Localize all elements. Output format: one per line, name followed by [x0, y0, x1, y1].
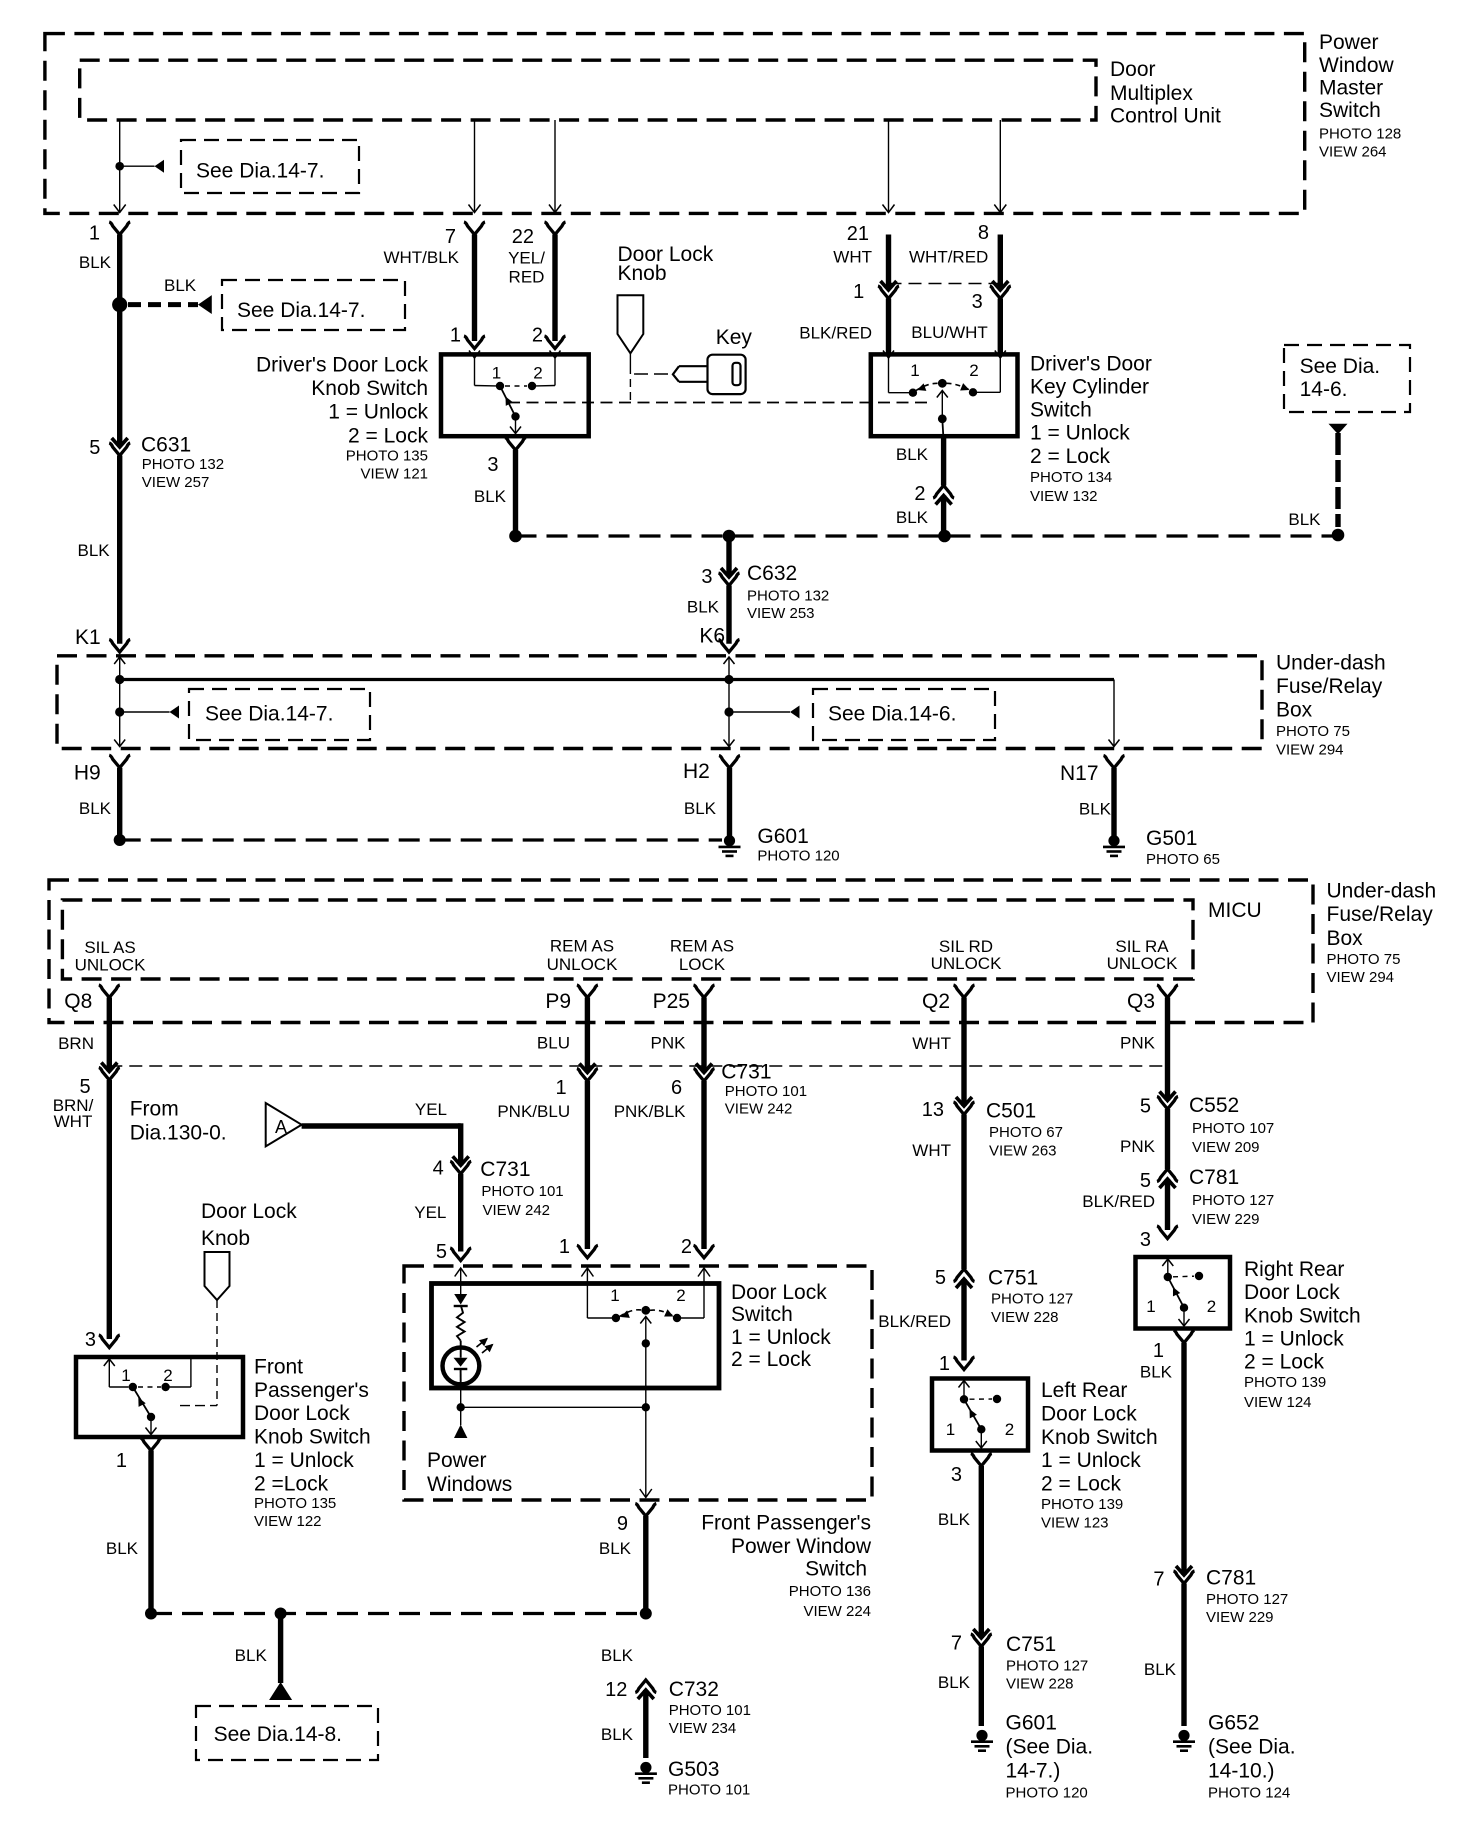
svg-text:5: 5 — [436, 1241, 447, 1263]
svg-text:Door Lock: Door Lock — [1244, 1281, 1340, 1304]
svg-text:3: 3 — [1140, 1229, 1151, 1251]
svg-text:VIEW 264: VIEW 264 — [1319, 143, 1387, 160]
svg-text:BLK: BLK — [235, 1646, 268, 1665]
svg-text:See Dia.: See Dia. — [1300, 355, 1381, 378]
svg-text:VIEW 228: VIEW 228 — [1006, 1676, 1074, 1693]
svg-text:VIEW 132: VIEW 132 — [1030, 488, 1098, 505]
svg-text:BLK: BLK — [79, 253, 112, 272]
svg-text:MICU: MICU — [1208, 899, 1262, 922]
svg-text:1: 1 — [939, 1353, 950, 1375]
svg-text:2 = Lock: 2 = Lock — [1041, 1473, 1121, 1496]
svg-text:Power Window: Power Window — [731, 1535, 872, 1558]
svg-text:Knob Switch: Knob Switch — [1041, 1426, 1158, 1449]
svg-text:PHOTO 120: PHOTO 120 — [1006, 1785, 1088, 1802]
svg-text:PHOTO 65: PHOTO 65 — [1146, 851, 1220, 868]
svg-text:BLK: BLK — [684, 799, 717, 818]
svg-text:PHOTO 136: PHOTO 136 — [789, 1583, 871, 1600]
svg-text:Fuse/Relay: Fuse/Relay — [1327, 903, 1434, 926]
svg-text:8: 8 — [978, 222, 989, 244]
svg-text:Key Cylinder: Key Cylinder — [1030, 376, 1149, 399]
svg-text:VIEW 122: VIEW 122 — [254, 1513, 322, 1530]
svg-text:H2: H2 — [683, 760, 710, 783]
svg-text:C781: C781 — [1189, 1166, 1239, 1189]
svg-text:2 = Lock: 2 = Lock — [731, 1348, 811, 1371]
svg-text:BLK: BLK — [1140, 1363, 1173, 1382]
svg-text:VIEW 294: VIEW 294 — [1327, 969, 1395, 986]
svg-text:Master: Master — [1319, 76, 1383, 99]
svg-text:VIEW 228: VIEW 228 — [991, 1309, 1059, 1326]
svg-text:C552: C552 — [1189, 1094, 1239, 1117]
svg-text:1: 1 — [1153, 1340, 1164, 1362]
svg-text:2 = Lock: 2 = Lock — [1244, 1350, 1324, 1373]
svg-text:REM AS: REM AS — [550, 937, 614, 956]
svg-text:C731: C731 — [480, 1158, 530, 1181]
svg-text:VIEW 121: VIEW 121 — [360, 466, 428, 483]
svg-text:5: 5 — [89, 437, 100, 459]
svg-text:YEL: YEL — [414, 1203, 446, 1222]
svg-text:PHOTO 139: PHOTO 139 — [1041, 1496, 1123, 1513]
svg-text:C781: C781 — [1206, 1567, 1256, 1590]
svg-text:PNK/BLU: PNK/BLU — [497, 1102, 570, 1121]
svg-text:PHOTO 120: PHOTO 120 — [757, 848, 839, 865]
svg-text:PHOTO 101: PHOTO 101 — [725, 1083, 807, 1100]
svg-text:C501: C501 — [986, 1100, 1036, 1123]
svg-text:P25: P25 — [653, 990, 690, 1013]
svg-text:BLK: BLK — [474, 487, 507, 506]
svg-text:13: 13 — [922, 1099, 944, 1121]
svg-text:22: 22 — [512, 226, 534, 248]
svg-text:BLK: BLK — [78, 541, 111, 560]
svg-text:1: 1 — [89, 223, 100, 245]
svg-text:Under-dash: Under-dash — [1327, 880, 1437, 903]
svg-text:G501: G501 — [1146, 827, 1197, 850]
svg-text:PHOTO 135: PHOTO 135 — [346, 448, 428, 465]
svg-text:LOCK: LOCK — [679, 955, 726, 974]
svg-text:VIEW 242: VIEW 242 — [725, 1100, 793, 1117]
svg-text:UNLOCK: UNLOCK — [931, 954, 1003, 973]
svg-text:C631: C631 — [141, 434, 191, 457]
svg-text:See Dia.14-7.: See Dia.14-7. — [237, 299, 365, 322]
svg-text:1: 1 — [450, 325, 461, 347]
svg-text:2: 2 — [532, 325, 543, 347]
svg-text:Knob: Knob — [618, 262, 667, 285]
svg-text:Multiplex: Multiplex — [1110, 82, 1193, 105]
svg-text:VIEW 234: VIEW 234 — [669, 1720, 737, 1737]
svg-text:VIEW 242: VIEW 242 — [483, 1202, 551, 1219]
svg-text:VIEW 229: VIEW 229 — [1192, 1211, 1260, 1228]
svg-text:PHOTO 139: PHOTO 139 — [1244, 1374, 1326, 1391]
svg-text:2 = Lock: 2 = Lock — [348, 425, 428, 448]
svg-text:Box: Box — [1327, 927, 1364, 950]
svg-text:2: 2 — [163, 1366, 172, 1385]
svg-text:9: 9 — [617, 1513, 628, 1535]
svg-text:1 = Unlock: 1 = Unlock — [1041, 1449, 1141, 1472]
svg-text:2: 2 — [969, 361, 978, 380]
svg-text:YEL: YEL — [415, 1100, 447, 1119]
svg-text:PHOTO 101: PHOTO 101 — [481, 1183, 563, 1200]
svg-text:BLK: BLK — [1079, 800, 1112, 819]
svg-text:PNK: PNK — [1120, 1034, 1156, 1053]
svg-text:WHT: WHT — [833, 248, 872, 267]
svg-text:1 = Unlock: 1 = Unlock — [1030, 422, 1130, 445]
svg-text:Door Lock: Door Lock — [731, 1281, 827, 1304]
svg-text:1: 1 — [121, 1366, 130, 1385]
svg-text:K1: K1 — [75, 626, 101, 649]
svg-text:1 = Unlock: 1 = Unlock — [328, 401, 428, 424]
svg-text:2: 2 — [681, 1236, 692, 1258]
svg-text:6: 6 — [671, 1077, 682, 1099]
svg-text:WHT/RED: WHT/RED — [909, 248, 988, 267]
svg-text:BLK: BLK — [106, 1539, 139, 1558]
svg-text:PHOTO 124: PHOTO 124 — [1208, 1785, 1290, 1802]
svg-text:3: 3 — [701, 566, 712, 588]
svg-text:7: 7 — [951, 1633, 962, 1655]
svg-text:1: 1 — [116, 1450, 127, 1472]
svg-text:Door Lock: Door Lock — [201, 1200, 297, 1223]
svg-text:Door Lock: Door Lock — [254, 1402, 350, 1425]
svg-text:BLK: BLK — [938, 1510, 971, 1529]
svg-text:Door Lock: Door Lock — [1041, 1403, 1137, 1426]
svg-text:2: 2 — [914, 483, 925, 505]
svg-text:12: 12 — [605, 1679, 627, 1701]
svg-text:SIL AS: SIL AS — [84, 938, 135, 957]
svg-text:See Dia.14-7.: See Dia.14-7. — [196, 160, 324, 183]
svg-text:PHOTO 75: PHOTO 75 — [1327, 951, 1401, 968]
svg-text:BLK: BLK — [896, 445, 929, 464]
svg-text:G503: G503 — [668, 1758, 719, 1781]
svg-text:1: 1 — [853, 281, 864, 303]
svg-text:PNK: PNK — [651, 1034, 687, 1053]
svg-text:H9: H9 — [74, 761, 101, 784]
svg-text:Left Rear: Left Rear — [1041, 1379, 1127, 1402]
svg-text:PHOTO 132: PHOTO 132 — [747, 588, 829, 605]
svg-text:BLK: BLK — [1288, 510, 1321, 529]
svg-text:Switch: Switch — [1030, 399, 1092, 422]
svg-text:Door: Door — [1110, 58, 1156, 81]
svg-text:14-7.): 14-7.) — [1006, 1760, 1061, 1783]
svg-text:VIEW 209: VIEW 209 — [1192, 1139, 1260, 1156]
svg-text:VIEW 229: VIEW 229 — [1206, 1609, 1274, 1626]
svg-text:G601: G601 — [757, 825, 808, 848]
svg-text:4: 4 — [433, 1158, 444, 1180]
svg-text:BLK/RED: BLK/RED — [1082, 1192, 1155, 1211]
svg-text:PHOTO 127: PHOTO 127 — [1006, 1658, 1088, 1675]
svg-text:WHT/BLK: WHT/BLK — [383, 248, 459, 267]
svg-text:G652: G652 — [1208, 1712, 1259, 1735]
svg-text:PHOTO 134: PHOTO 134 — [1030, 469, 1112, 486]
svg-text:See Dia.14-7.: See Dia.14-7. — [205, 703, 333, 726]
svg-text:BLK: BLK — [601, 1646, 634, 1665]
svg-text:WHT: WHT — [912, 1141, 951, 1160]
svg-text:5: 5 — [1140, 1170, 1151, 1192]
svg-text:Under-dash: Under-dash — [1276, 652, 1386, 675]
svg-text:1: 1 — [559, 1236, 570, 1258]
svg-text:Driver's Door: Driver's Door — [1030, 353, 1152, 376]
svg-text:BRN: BRN — [58, 1034, 94, 1053]
svg-text:3: 3 — [487, 454, 498, 476]
svg-text:BLK/RED: BLK/RED — [878, 1312, 951, 1331]
svg-text:7: 7 — [1153, 1569, 1164, 1591]
svg-text:BLK: BLK — [79, 799, 112, 818]
svg-text:VIEW 123: VIEW 123 — [1041, 1514, 1109, 1531]
svg-text:PHOTO 132: PHOTO 132 — [142, 456, 224, 473]
svg-text:VIEW 257: VIEW 257 — [142, 474, 210, 491]
svg-text:See Dia.14-8.: See Dia.14-8. — [214, 1723, 342, 1746]
svg-text:5: 5 — [935, 1267, 946, 1289]
svg-text:1: 1 — [610, 1286, 619, 1305]
svg-text:Passenger's: Passenger's — [254, 1379, 369, 1402]
svg-text:PNK/BLK: PNK/BLK — [614, 1102, 686, 1121]
svg-text:(See Dia.: (See Dia. — [1006, 1736, 1094, 1759]
svg-text:PHOTO 128: PHOTO 128 — [1319, 126, 1401, 143]
svg-text:Driver's Door Lock: Driver's Door Lock — [256, 354, 429, 377]
svg-text:PHOTO 101: PHOTO 101 — [669, 1702, 751, 1719]
svg-text:2: 2 — [676, 1286, 685, 1305]
svg-text:BLU: BLU — [537, 1034, 570, 1053]
svg-text:See Dia.14-6.: See Dia.14-6. — [828, 703, 956, 726]
svg-text:3: 3 — [85, 1329, 96, 1351]
svg-text:A: A — [275, 1117, 287, 1137]
svg-text:5: 5 — [1140, 1096, 1151, 1118]
svg-text:PHOTO 127: PHOTO 127 — [991, 1291, 1073, 1308]
svg-text:Front: Front — [254, 1356, 303, 1379]
svg-text:BLK: BLK — [601, 1725, 634, 1744]
svg-text:2: 2 — [1207, 1297, 1216, 1316]
svg-text:BLK: BLK — [1144, 1660, 1177, 1679]
svg-text:1 = Unlock: 1 = Unlock — [254, 1449, 354, 1472]
svg-text:Power: Power — [1319, 31, 1379, 54]
svg-text:Knob Switch: Knob Switch — [1244, 1305, 1361, 1328]
svg-text:PHOTO 75: PHOTO 75 — [1276, 723, 1350, 740]
svg-text:5: 5 — [79, 1076, 90, 1098]
svg-text:Switch: Switch — [731, 1303, 793, 1326]
svg-text:PHOTO 127: PHOTO 127 — [1192, 1192, 1274, 1209]
svg-text:7: 7 — [445, 226, 456, 248]
svg-text:BLK: BLK — [599, 1539, 632, 1558]
svg-text:UNLOCK: UNLOCK — [1107, 954, 1179, 973]
svg-text:Switch: Switch — [805, 1558, 867, 1581]
svg-text:BLK: BLK — [938, 1673, 971, 1692]
svg-text:14-6.: 14-6. — [1300, 378, 1348, 401]
svg-text:1: 1 — [1146, 1297, 1155, 1316]
svg-text:BLU/WHT: BLU/WHT — [911, 323, 988, 342]
svg-text:Fuse/Relay: Fuse/Relay — [1276, 675, 1383, 698]
svg-text:1: 1 — [555, 1077, 566, 1099]
svg-text:21: 21 — [847, 223, 869, 245]
svg-text:WHT: WHT — [54, 1112, 93, 1131]
svg-text:G601: G601 — [1006, 1712, 1057, 1735]
svg-text:2: 2 — [1005, 1420, 1014, 1439]
svg-text:(See Dia.: (See Dia. — [1208, 1736, 1296, 1759]
svg-text:BLK: BLK — [896, 508, 929, 527]
svg-text:BLK/RED: BLK/RED — [799, 324, 872, 343]
svg-text:UNLOCK: UNLOCK — [547, 955, 619, 974]
svg-text:Switch: Switch — [1319, 99, 1381, 122]
svg-text:BLK: BLK — [164, 276, 197, 295]
svg-text:1: 1 — [492, 364, 501, 383]
svg-text:1 = Unlock: 1 = Unlock — [731, 1326, 831, 1349]
svg-text:1: 1 — [910, 361, 919, 380]
svg-text:RED: RED — [509, 268, 545, 287]
svg-text:Q3: Q3 — [1127, 990, 1155, 1013]
svg-text:N17: N17 — [1060, 762, 1099, 785]
svg-text:C751: C751 — [988, 1267, 1038, 1290]
svg-text:Control Unit: Control Unit — [1110, 105, 1221, 128]
svg-text:VIEW 253: VIEW 253 — [747, 605, 815, 622]
svg-text:C632: C632 — [747, 562, 797, 585]
svg-text:Knob Switch: Knob Switch — [311, 377, 428, 400]
svg-text:From: From — [130, 1098, 179, 1121]
svg-text:PHOTO 107: PHOTO 107 — [1192, 1120, 1274, 1137]
svg-text:Power: Power — [427, 1449, 487, 1472]
svg-text:PHOTO 101: PHOTO 101 — [668, 1782, 750, 1799]
svg-text:Right Rear: Right Rear — [1244, 1258, 1344, 1281]
svg-text:UNLOCK: UNLOCK — [75, 955, 147, 974]
svg-text:C732: C732 — [669, 1678, 719, 1701]
svg-text:Knob: Knob — [201, 1227, 250, 1250]
svg-text:3: 3 — [972, 291, 983, 313]
svg-text:14-10.): 14-10.) — [1208, 1760, 1275, 1783]
svg-text:1 = Unlock: 1 = Unlock — [1244, 1327, 1344, 1350]
svg-text:Front Passenger's: Front Passenger's — [701, 1512, 871, 1535]
svg-text:2 =Lock: 2 =Lock — [254, 1473, 329, 1496]
svg-text:VIEW 263: VIEW 263 — [989, 1143, 1057, 1160]
svg-text:C751: C751 — [1006, 1633, 1056, 1656]
svg-text:P9: P9 — [545, 990, 571, 1013]
svg-text:PHOTO 127: PHOTO 127 — [1206, 1591, 1288, 1608]
svg-text:2: 2 — [533, 364, 542, 383]
svg-text:Key: Key — [716, 326, 753, 349]
svg-text:PNK: PNK — [1120, 1137, 1156, 1156]
svg-text:C731: C731 — [721, 1061, 771, 1084]
svg-text:Box: Box — [1276, 699, 1313, 722]
svg-text:YEL/: YEL/ — [508, 249, 545, 268]
svg-text:Dia.130-0.: Dia.130-0. — [130, 1122, 227, 1145]
svg-text:Q2: Q2 — [922, 990, 950, 1013]
svg-text:REM AS: REM AS — [670, 937, 734, 956]
svg-text:Windows: Windows — [427, 1473, 512, 1496]
svg-text:Q8: Q8 — [64, 990, 92, 1013]
svg-text:VIEW 124: VIEW 124 — [1244, 1394, 1312, 1411]
svg-text:PHOTO 67: PHOTO 67 — [989, 1124, 1063, 1141]
svg-text:2 = Lock: 2 = Lock — [1030, 445, 1110, 468]
svg-text:VIEW 294: VIEW 294 — [1276, 742, 1344, 759]
svg-text:1: 1 — [946, 1420, 955, 1439]
svg-text:PHOTO 135: PHOTO 135 — [254, 1495, 336, 1512]
svg-text:WHT: WHT — [912, 1034, 951, 1053]
svg-text:3: 3 — [951, 1464, 962, 1486]
svg-text:Window: Window — [1319, 54, 1395, 77]
svg-text:Knob Switch: Knob Switch — [254, 1426, 371, 1449]
svg-text:VIEW 224: VIEW 224 — [803, 1603, 871, 1620]
svg-text:BLK: BLK — [687, 598, 720, 617]
